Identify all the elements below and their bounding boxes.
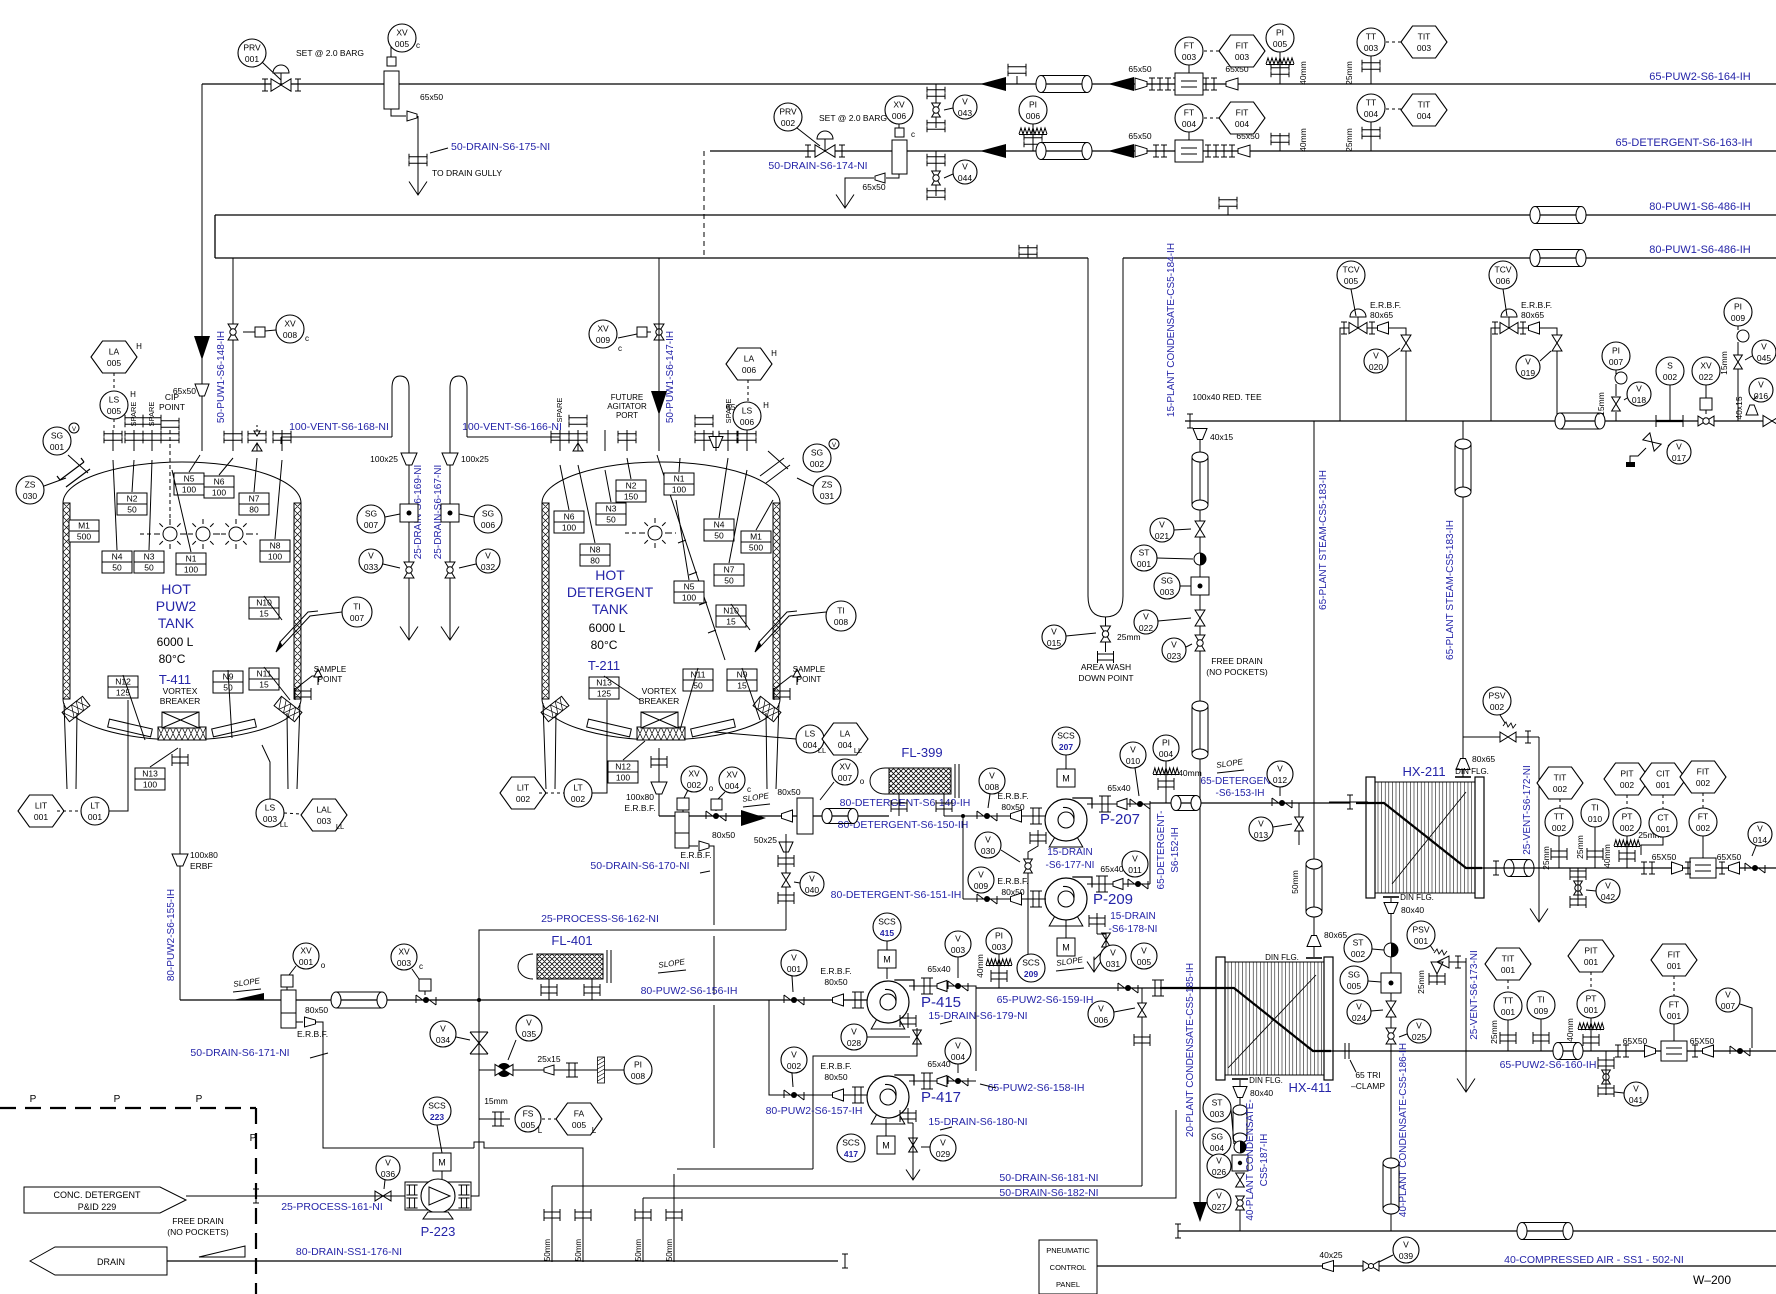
feed arrow T-211 bbox=[651, 391, 667, 415]
instrument LA 005 bbox=[91, 341, 137, 373]
svg-text:150: 150 bbox=[624, 492, 638, 502]
flange tee L1 bbox=[1016, 76, 1018, 84]
instrument ST 002 bbox=[1344, 934, 1372, 962]
svg-text:018: 018 bbox=[1632, 395, 1646, 405]
svg-text:016: 016 bbox=[1754, 391, 1768, 401]
svg-text:100x25: 100x25 bbox=[370, 454, 398, 464]
instrument V 030 bbox=[975, 832, 1001, 858]
svg-text:o: o bbox=[860, 777, 865, 786]
svg-text:80x50: 80x50 bbox=[305, 1005, 328, 1015]
drain P415 bbox=[900, 1015, 916, 1027]
svg-text:P&ID 229: P&ID 229 bbox=[78, 1202, 117, 1212]
check V004 bbox=[948, 1076, 968, 1086]
svg-text:100x40 RED. TEE: 100x40 RED. TEE bbox=[1192, 392, 1262, 402]
svg-text:-S6-178-NI: -S6-178-NI bbox=[1109, 924, 1158, 935]
svg-text:V: V bbox=[440, 1024, 446, 1034]
svg-text:50-DRAIN-S6-170-NI: 50-DRAIN-S6-170-NI bbox=[590, 860, 689, 872]
svg-text:V: V bbox=[1130, 745, 1136, 755]
svg-text:001: 001 bbox=[1656, 780, 1670, 790]
arrow L2 b bbox=[1108, 144, 1134, 158]
svg-text:TT: TT bbox=[1366, 98, 1376, 108]
instrument FT 001 bbox=[1660, 996, 1688, 1024]
pipe P209 suction bbox=[963, 898, 1046, 900]
motor M P209 bbox=[1057, 938, 1075, 956]
svg-text:50x25: 50x25 bbox=[754, 835, 777, 845]
svg-text:LT: LT bbox=[573, 783, 582, 793]
svg-text:LL: LL bbox=[280, 820, 288, 829]
svg-text:P-209: P-209 bbox=[1093, 891, 1133, 908]
svg-text:25mm: 25mm bbox=[1416, 970, 1426, 994]
svg-text:N6: N6 bbox=[564, 512, 575, 522]
svg-text:001: 001 bbox=[34, 812, 48, 822]
instrument CIT 001 bbox=[1640, 763, 1686, 795]
svg-text:001: 001 bbox=[787, 964, 801, 974]
instrument V 001 bbox=[781, 950, 807, 976]
svg-text:ST: ST bbox=[1139, 548, 1150, 558]
nozzle leaders T411 bbox=[132, 460, 134, 492]
svg-text:PORT: PORT bbox=[616, 411, 638, 420]
svg-text:010: 010 bbox=[1126, 756, 1140, 766]
steam trap ball ST002 bbox=[1384, 943, 1398, 957]
svg-text:V: V bbox=[809, 874, 815, 884]
instrument FT 004 bbox=[1175, 104, 1203, 132]
check V009 bbox=[977, 894, 997, 904]
svg-text:033: 033 bbox=[364, 562, 378, 572]
motor M P223 bbox=[433, 1153, 451, 1171]
flange TCV005 bbox=[1341, 322, 1347, 334]
reducer XV005 bbox=[407, 111, 417, 121]
svg-text:223: 223 bbox=[430, 1112, 444, 1122]
svg-text:H: H bbox=[130, 390, 136, 399]
instrument XV 007 bbox=[832, 759, 858, 785]
svg-text:V: V bbox=[526, 1018, 532, 1028]
instrument V 035 bbox=[516, 1015, 542, 1041]
svg-text:001: 001 bbox=[1667, 1011, 1681, 1021]
svg-text:SPARE: SPARE bbox=[555, 398, 564, 423]
pipe 15-PLANT-CONDENSATE drop bbox=[1199, 440, 1201, 1210]
flange PRV001 left bbox=[262, 79, 268, 91]
nozzle N10 T-411 bbox=[249, 597, 279, 619]
instrument SCS 417 bbox=[837, 1134, 865, 1162]
svg-text:E.R.B.F.: E.R.B.F. bbox=[997, 876, 1028, 886]
svg-text:ST: ST bbox=[1212, 1098, 1223, 1108]
svg-text:80: 80 bbox=[590, 556, 600, 566]
svg-text:P: P bbox=[30, 1094, 37, 1105]
svg-text:003: 003 bbox=[1210, 1109, 1224, 1119]
svg-text:V: V bbox=[1633, 1084, 1639, 1094]
instrument ST 001 bbox=[1131, 545, 1157, 571]
svg-text:50: 50 bbox=[112, 563, 122, 573]
svg-text:L: L bbox=[592, 1126, 597, 1135]
drain P207 bbox=[1030, 832, 1046, 844]
svg-text:TI: TI bbox=[353, 602, 361, 612]
svg-text:65X50: 65X50 bbox=[1717, 852, 1742, 862]
svg-text:80-PUW1-S6-486-IH: 80-PUW1-S6-486-IH bbox=[1649, 244, 1751, 256]
svg-text:031: 031 bbox=[1106, 959, 1120, 969]
svg-text:417: 417 bbox=[844, 1149, 858, 1159]
flange TCV006 bbox=[1492, 322, 1498, 334]
svg-text:014: 014 bbox=[1753, 835, 1767, 845]
instrument LAL 003 bbox=[301, 799, 347, 831]
pipe 65-DET-153 bbox=[1150, 802, 1350, 804]
svg-text:80-PUW2-S6-155-IH: 80-PUW2-S6-155-IH bbox=[166, 889, 177, 981]
svg-text:80-DETERGENT-S6-151-IH: 80-DETERGENT-S6-151-IH bbox=[831, 889, 962, 901]
flange PRV001 right bbox=[295, 79, 301, 91]
slope wedge bl bbox=[199, 1246, 245, 1257]
instrument PRV 001 bbox=[238, 39, 266, 67]
valve V027v bbox=[1236, 1196, 1245, 1210]
svg-text:15: 15 bbox=[259, 609, 269, 619]
flange HX211 left bbox=[1347, 795, 1353, 809]
conc detergent banner bbox=[24, 1187, 186, 1213]
svg-text:25x15: 25x15 bbox=[537, 1054, 560, 1064]
valve XV001 bbox=[281, 975, 293, 987]
svg-text:HX-411: HX-411 bbox=[1288, 1080, 1331, 1095]
svg-text:017: 017 bbox=[1672, 453, 1686, 463]
flange steam left bbox=[1187, 414, 1193, 428]
valve V030v bbox=[1024, 859, 1033, 873]
svg-text:002: 002 bbox=[1351, 949, 1365, 959]
reducer P415 suc bbox=[833, 994, 844, 1006]
svg-text:PI: PI bbox=[1612, 346, 1620, 356]
svg-text:006: 006 bbox=[481, 520, 495, 530]
instrument PI 004 bbox=[1153, 735, 1179, 761]
instrument SG 001 bbox=[43, 427, 71, 455]
svg-text:FT: FT bbox=[1184, 108, 1194, 118]
svg-text:25mm: 25mm bbox=[1344, 61, 1354, 85]
svg-text:80x50: 80x50 bbox=[824, 977, 847, 987]
svg-text:100: 100 bbox=[672, 485, 686, 495]
reducer 100x80 T411 bbox=[172, 854, 188, 866]
pipe TCV006 loop bbox=[1491, 328, 1557, 421]
svg-text:PRV: PRV bbox=[243, 43, 261, 53]
svg-text:500: 500 bbox=[749, 543, 763, 553]
svg-text:005: 005 bbox=[1344, 276, 1358, 286]
pipe 80-DRAIN-SS1-176 bbox=[167, 1260, 838, 1262]
hose L4 bbox=[1535, 250, 1581, 267]
heat exchanger HX-411 bbox=[1218, 962, 1331, 1075]
instrument ZS 030 bbox=[16, 476, 44, 504]
pipe 100-VENT-S6-166-NI bbox=[467, 436, 560, 438]
svg-text:TCV: TCV bbox=[1343, 265, 1360, 275]
svg-text:022: 022 bbox=[1139, 623, 1153, 633]
instrument PT 001 bbox=[1577, 990, 1605, 1018]
svg-text:65-DETERGENT-S6-163-IH: 65-DETERGENT-S6-163-IH bbox=[1616, 137, 1753, 149]
svg-text:LIT: LIT bbox=[35, 801, 47, 811]
instrument TT 003 bbox=[1357, 28, 1385, 56]
svg-text:SCS: SCS bbox=[842, 1138, 860, 1148]
flange P223 suction bbox=[253, 1189, 259, 1203]
svg-text:001: 001 bbox=[50, 442, 64, 452]
sight lamps T-411 bbox=[163, 527, 177, 541]
feed arrow T-411 bbox=[194, 336, 210, 360]
svg-text:80x50: 80x50 bbox=[712, 830, 735, 840]
pipe 80-PUW1-S6-486-IH upper bbox=[215, 214, 1776, 216]
reducer L1 b bbox=[1226, 78, 1238, 90]
svg-text:002: 002 bbox=[571, 794, 585, 804]
svg-text:40mm: 40mm bbox=[975, 954, 985, 978]
svg-text:50mm: 50mm bbox=[634, 1239, 643, 1262]
svg-text:E.R.B.F.: E.R.B.F. bbox=[1370, 300, 1401, 310]
svg-text:M: M bbox=[882, 1141, 890, 1151]
pipe 65-PUW2-S6-159 bbox=[976, 987, 1160, 989]
svg-text:V: V bbox=[1110, 948, 1116, 958]
instrument TIT 004 bbox=[1401, 94, 1447, 126]
svg-text:001: 001 bbox=[1137, 559, 1151, 569]
svg-text:V: V bbox=[851, 1027, 857, 1037]
svg-text:N3: N3 bbox=[606, 504, 617, 514]
nozzle N10 T-211 bbox=[716, 605, 746, 627]
svg-text:50mm: 50mm bbox=[574, 1239, 583, 1262]
svg-text:003: 003 bbox=[1235, 52, 1249, 62]
svg-text:PSV: PSV bbox=[1412, 925, 1429, 935]
drain P417 bbox=[900, 1110, 916, 1122]
valve V006v bbox=[1141, 988, 1143, 1032]
svg-text:c: c bbox=[419, 962, 423, 971]
arrow cond to header bbox=[1193, 1202, 1207, 1222]
valve XV003 bbox=[416, 995, 436, 1005]
control valve PRV001 bbox=[271, 79, 291, 91]
valve XV009 bbox=[654, 324, 664, 340]
svg-text:TI: TI bbox=[1537, 995, 1545, 1005]
svg-text:15-DRAIN: 15-DRAIN bbox=[1110, 911, 1156, 922]
pump P-207 bbox=[1049, 836, 1083, 847]
svg-text:LL: LL bbox=[818, 746, 826, 755]
svg-text:–CLAMP: –CLAMP bbox=[1351, 1081, 1385, 1091]
filter FL-401 bbox=[537, 954, 603, 979]
instrument LIT 002 bbox=[500, 777, 546, 809]
svg-text:036: 036 bbox=[381, 1169, 395, 1179]
svg-text:65x40: 65x40 bbox=[1107, 783, 1130, 793]
svg-text:028: 028 bbox=[847, 1038, 861, 1048]
svg-text:FA: FA bbox=[574, 1109, 585, 1119]
FL399 flanges bbox=[891, 800, 907, 812]
svg-text:500: 500 bbox=[77, 532, 91, 542]
instrument V 024 bbox=[1347, 1000, 1371, 1024]
slope arrow t411 bbox=[233, 993, 264, 1000]
svg-text:50-DRAIN-S6-171-NI: 50-DRAIN-S6-171-NI bbox=[190, 1047, 289, 1059]
meter run HX411 out bbox=[1661, 1041, 1687, 1061]
instrument V 026 bbox=[1207, 1154, 1231, 1178]
svg-text:15-DRAIN-S6-179-NI: 15-DRAIN-S6-179-NI bbox=[928, 1010, 1027, 1022]
svg-text:004: 004 bbox=[838, 740, 852, 750]
pipe 50-DRAIN-S6-182 bbox=[643, 1110, 1176, 1198]
svg-text:N4: N4 bbox=[112, 552, 123, 562]
flange cond header bbox=[1175, 1224, 1181, 1238]
svg-text:POINT: POINT bbox=[318, 675, 343, 684]
svg-text:80°C: 80°C bbox=[159, 652, 186, 666]
svg-text:SAMPLE: SAMPLE bbox=[793, 665, 825, 674]
svg-text:25mm: 25mm bbox=[1489, 1020, 1499, 1044]
flange T411 outlet bbox=[172, 754, 188, 766]
svg-text:TI: TI bbox=[837, 606, 845, 616]
control valve TCV005 bbox=[1349, 322, 1367, 333]
svg-text:006: 006 bbox=[1094, 1015, 1108, 1025]
wire drain to gully bbox=[417, 116, 419, 182]
instrument TIT 003 bbox=[1401, 26, 1447, 58]
vent arrow 1 bbox=[400, 620, 418, 640]
svg-text:V: V bbox=[368, 551, 374, 561]
svg-text:100: 100 bbox=[616, 773, 630, 783]
svg-text:XV: XV bbox=[688, 769, 700, 779]
svg-text:002: 002 bbox=[1663, 372, 1677, 382]
svg-text:009: 009 bbox=[596, 335, 610, 345]
check V005 bbox=[1118, 983, 1138, 993]
pipe 80-PUW1-S6-486-IH lower bbox=[215, 257, 1088, 259]
steam trap ST001 bbox=[1194, 553, 1206, 565]
svg-text:PUW2: PUW2 bbox=[156, 598, 197, 614]
instrument V 006 bbox=[1088, 1001, 1114, 1027]
svg-text:SPARE: SPARE bbox=[129, 402, 138, 427]
PSV001 valve bbox=[1436, 968, 1438, 985]
svg-text:N13: N13 bbox=[142, 769, 158, 779]
svg-text:H: H bbox=[763, 401, 769, 410]
svg-text:005: 005 bbox=[1347, 981, 1361, 991]
svg-text:100: 100 bbox=[682, 593, 696, 603]
svg-text:15-DRAIN: 15-DRAIN bbox=[1047, 847, 1093, 858]
erbf body T211 bbox=[675, 812, 689, 848]
svg-text:005: 005 bbox=[395, 39, 409, 49]
svg-text:N4: N4 bbox=[714, 520, 725, 530]
flange P207 suc bbox=[1030, 808, 1042, 824]
svg-text:65-PLANT STEAM-CS5-183-IH: 65-PLANT STEAM-CS5-183-IH bbox=[1445, 520, 1456, 660]
HX211 bottom port bbox=[1390, 898, 1392, 1044]
svg-text:50-PUW1-S6-147-IH: 50-PUW1-S6-147-IH bbox=[665, 331, 676, 423]
svg-text:V: V bbox=[1373, 351, 1379, 361]
svg-text:045: 045 bbox=[1757, 353, 1771, 363]
instrument XV 001 bbox=[293, 943, 319, 969]
svg-text:PI: PI bbox=[634, 1060, 642, 1070]
instrument V 022 bbox=[1134, 610, 1158, 634]
instrument TT 001 bbox=[1494, 992, 1522, 1020]
reducer 100x25 v1 bbox=[401, 453, 417, 465]
control valve PRV002 bbox=[815, 145, 835, 157]
svg-text:V: V bbox=[1676, 442, 1682, 452]
sight glass SG006 bbox=[441, 504, 459, 522]
svg-text:V: V bbox=[978, 870, 984, 880]
meter run L1 bbox=[1175, 73, 1203, 95]
svg-text:XV: XV bbox=[1700, 361, 1712, 371]
pipe 80-PUW2-S6-156 bbox=[180, 999, 868, 1001]
svg-text:6000 L: 6000 L bbox=[589, 621, 626, 635]
hose cond header bbox=[1522, 1223, 1568, 1240]
instrument LT 001 bbox=[81, 797, 109, 825]
svg-text:004: 004 bbox=[1210, 1143, 1224, 1153]
flange P207 dis bbox=[1099, 796, 1111, 812]
nozzle N8 T-211 bbox=[580, 544, 610, 566]
svg-text:N5: N5 bbox=[684, 582, 695, 592]
instrument PI 003 bbox=[986, 928, 1012, 954]
svg-text:CONTROL: CONTROL bbox=[1050, 1263, 1087, 1272]
svg-text:100: 100 bbox=[562, 523, 576, 533]
svg-text:65-PUW2-S6-158-IH: 65-PUW2-S6-158-IH bbox=[988, 1082, 1085, 1094]
svg-text:40mm: 40mm bbox=[1298, 61, 1308, 85]
svg-text:003: 003 bbox=[1364, 43, 1378, 53]
svg-text:N9: N9 bbox=[737, 670, 748, 680]
pipe 50-DRAIN-S6-170 bbox=[689, 845, 698, 847]
valve V020v bbox=[1401, 335, 1411, 351]
flange pair L2 bbox=[1153, 145, 1167, 157]
valve V023v bbox=[1195, 635, 1205, 651]
svg-text:65x40: 65x40 bbox=[927, 964, 950, 974]
tank T-411 body bbox=[63, 462, 301, 503]
hose T211 out bbox=[827, 809, 853, 824]
svg-text:POINT: POINT bbox=[159, 402, 185, 412]
PSV001 outlet bbox=[1449, 961, 1466, 963]
wire PRV001 leader bbox=[262, 62, 281, 80]
svg-text:004: 004 bbox=[1182, 119, 1196, 129]
pump P-209 bbox=[1049, 915, 1083, 926]
instrument V 028 bbox=[841, 1024, 867, 1050]
nozzle N8 T-411 bbox=[260, 540, 290, 562]
svg-text:AREA WASH: AREA WASH bbox=[1081, 662, 1131, 672]
valve XV002 bbox=[677, 798, 689, 810]
svg-text:P-415: P-415 bbox=[921, 994, 961, 1011]
svg-text:SCS: SCS bbox=[878, 917, 896, 927]
svg-text:209: 209 bbox=[1024, 969, 1038, 979]
thermowell T211 bbox=[761, 612, 826, 646]
instrument LIT 001 bbox=[18, 795, 64, 827]
svg-text:V: V bbox=[985, 835, 991, 845]
svg-text:L: L bbox=[538, 1126, 543, 1135]
svg-text:HX-211: HX-211 bbox=[1402, 764, 1445, 779]
instrument TIT 001 bbox=[1485, 948, 1531, 980]
pipe 65-PUW2-S6-164-IH header bbox=[202, 83, 1776, 85]
svg-text:002: 002 bbox=[1552, 823, 1566, 833]
instrument TIT 002 bbox=[1537, 767, 1583, 799]
pump P-223 bbox=[405, 1182, 471, 1210]
nozzle N6 T-211 bbox=[554, 511, 584, 533]
nozzle N13 T-211 bbox=[589, 677, 619, 699]
svg-text:TI: TI bbox=[1591, 803, 1599, 813]
wire V027 to header bbox=[1239, 1210, 1241, 1231]
svg-text:LS: LS bbox=[742, 406, 753, 416]
spray nozzle T411 bbox=[57, 458, 90, 487]
nozzle M1 T-211 bbox=[741, 531, 771, 553]
svg-text:031: 031 bbox=[820, 491, 834, 501]
svg-text:c: c bbox=[747, 785, 751, 794]
svg-text:V: V bbox=[1761, 342, 1767, 352]
svg-text:V: V bbox=[1159, 520, 1165, 530]
svg-text:15: 15 bbox=[726, 617, 736, 627]
nozzle N12 T-211 bbox=[608, 761, 638, 783]
svg-text:TIT: TIT bbox=[1418, 32, 1431, 42]
instrument SG 005 bbox=[1340, 966, 1368, 994]
svg-text:M1: M1 bbox=[78, 521, 90, 531]
svg-text:207: 207 bbox=[1059, 742, 1073, 752]
instrument V 002 bbox=[781, 1047, 807, 1073]
meter run HX211 bbox=[1690, 858, 1716, 878]
instrument ST 003 bbox=[1203, 1094, 1231, 1122]
pipe TCV005 loop bbox=[1340, 328, 1406, 421]
cylinder cond 1 bbox=[1192, 457, 1208, 505]
nozzle N1 T-411 bbox=[176, 553, 206, 575]
meter run L2 bbox=[1175, 140, 1203, 162]
svg-text:100: 100 bbox=[212, 488, 226, 498]
svg-text:50mm: 50mm bbox=[1290, 870, 1300, 894]
svg-text:LL: LL bbox=[854, 746, 862, 755]
svg-text:004: 004 bbox=[1417, 111, 1431, 121]
instrument V 031 bbox=[1100, 945, 1126, 971]
hose HX411 out bbox=[1558, 1043, 1578, 1060]
svg-text:SG: SG bbox=[365, 509, 377, 519]
svg-text:PI: PI bbox=[1276, 28, 1284, 38]
instrument V 016 bbox=[1749, 378, 1773, 402]
instrument V 045 bbox=[1752, 340, 1776, 364]
svg-text:65 TRI: 65 TRI bbox=[1355, 1070, 1380, 1080]
svg-text:027: 027 bbox=[1212, 1202, 1226, 1212]
solenoid body XV005 bbox=[384, 71, 399, 109]
